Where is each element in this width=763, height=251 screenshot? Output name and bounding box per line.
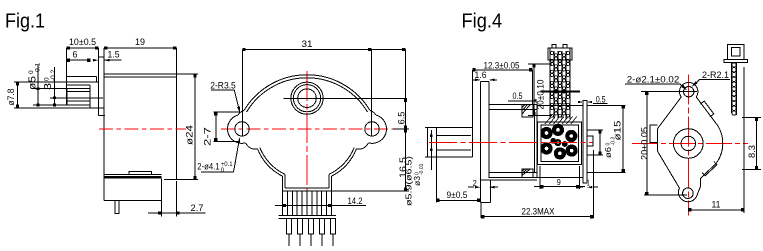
svg-text:11: 11 bbox=[712, 200, 721, 210]
svg-text:-0.1: -0.1 bbox=[35, 62, 42, 74]
svg-text:1.6: 1.6 bbox=[475, 70, 487, 80]
svg-text:2-ø4.1: 2-ø4.1 bbox=[197, 162, 219, 172]
svg-text:20±0.05: 20±0.05 bbox=[640, 127, 650, 160]
svg-text:2: 2 bbox=[473, 179, 477, 188]
svg-text:31: 31 bbox=[302, 39, 313, 49]
svg-text:19: 19 bbox=[135, 37, 145, 47]
svg-text:22.3MAX: 22.3MAX bbox=[522, 207, 555, 217]
svg-text:1: 1 bbox=[587, 179, 590, 188]
svg-text:2-7: 2-7 bbox=[202, 127, 213, 146]
svg-text:ø5: ø5 bbox=[27, 76, 39, 90]
svg-text:-0.01: -0.01 bbox=[419, 163, 425, 175]
svg-text:10±0.5: 10±0.5 bbox=[69, 37, 96, 47]
svg-text:9: 9 bbox=[557, 178, 561, 187]
svg-text:0.5: 0.5 bbox=[596, 94, 606, 104]
svg-text:2.7: 2.7 bbox=[191, 203, 204, 213]
svg-text:2-ø2.1±0.02: 2-ø2.1±0.02 bbox=[627, 75, 680, 85]
svg-text:2-R3.5: 2-R3.5 bbox=[210, 80, 236, 90]
svg-text:Fig.1: Fig.1 bbox=[5, 10, 45, 33]
svg-text:ø6: ø6 bbox=[603, 147, 613, 158]
svg-text:6.5: 6.5 bbox=[397, 112, 407, 125]
svg-text:ø15: ø15 bbox=[613, 121, 623, 141]
svg-text:14.2: 14.2 bbox=[348, 196, 363, 206]
svg-text:0.5: 0.5 bbox=[513, 91, 523, 101]
svg-text:1.5: 1.5 bbox=[108, 50, 120, 60]
svg-text:12.3±0.05: 12.3±0.05 bbox=[484, 60, 520, 70]
svg-text:ø3: ø3 bbox=[412, 176, 422, 186]
svg-text:3: 3 bbox=[42, 83, 54, 90]
svg-text:ø7.8: ø7.8 bbox=[6, 89, 16, 106]
svg-text:6: 6 bbox=[73, 50, 78, 60]
svg-text:Fig.4: Fig.4 bbox=[462, 9, 503, 32]
svg-text:9±0.5: 9±0.5 bbox=[447, 190, 468, 200]
svg-text:20±0.10: 20±0.10 bbox=[536, 80, 546, 110]
svg-text:-0.2: -0.2 bbox=[50, 69, 57, 81]
svg-text:2-R2.1: 2-R2.1 bbox=[702, 70, 729, 80]
svg-text:ø24: ø24 bbox=[185, 125, 195, 145]
svg-text:8.3: 8.3 bbox=[747, 145, 757, 158]
